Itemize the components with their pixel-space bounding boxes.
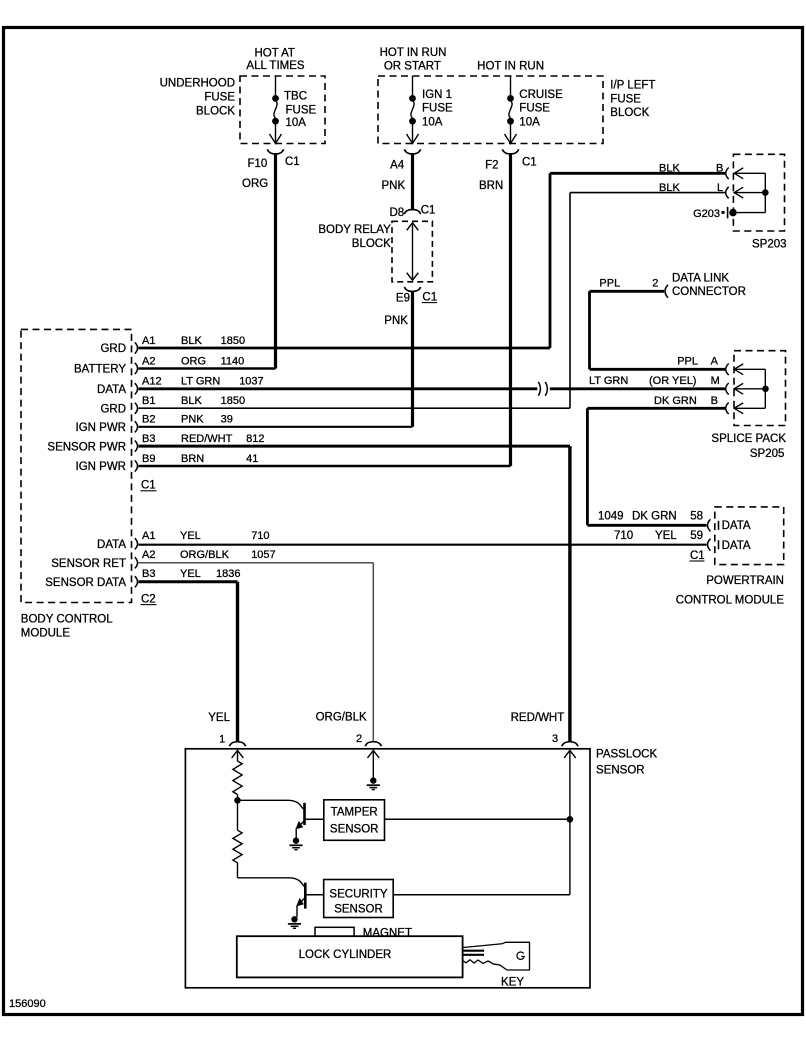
svg-text:58: 58 bbox=[690, 511, 703, 523]
svg-text:A2: A2 bbox=[142, 355, 155, 367]
svg-text:A1: A1 bbox=[142, 530, 155, 542]
svg-text:C1: C1 bbox=[285, 156, 300, 168]
svg-text:BLOCK: BLOCK bbox=[352, 238, 391, 250]
svg-text:SENSOR: SENSOR bbox=[330, 823, 379, 835]
svg-text:POWERTRAIN: POWERTRAIN bbox=[706, 575, 784, 587]
svg-text:10A: 10A bbox=[422, 116, 443, 128]
svg-text:BRN: BRN bbox=[479, 180, 503, 192]
svg-text:L: L bbox=[717, 182, 723, 194]
svg-text:PNK: PNK bbox=[382, 180, 406, 192]
svg-text:2: 2 bbox=[652, 278, 658, 290]
svg-text:SP205: SP205 bbox=[750, 448, 785, 460]
svg-text:I/P LEFT: I/P LEFT bbox=[610, 79, 655, 91]
svg-text:10A: 10A bbox=[519, 116, 540, 128]
svg-text:3: 3 bbox=[552, 733, 558, 745]
svg-text:RED/WHT: RED/WHT bbox=[181, 433, 233, 445]
svg-text:B1: B1 bbox=[142, 395, 155, 407]
svg-text:FUSE: FUSE bbox=[519, 103, 550, 115]
svg-text:A1: A1 bbox=[142, 335, 155, 347]
svg-text:GRD: GRD bbox=[100, 343, 126, 355]
svg-text:ORG/BLK: ORG/BLK bbox=[316, 712, 367, 724]
svg-text:C1: C1 bbox=[141, 480, 156, 492]
svg-text:B3: B3 bbox=[142, 568, 155, 580]
svg-text:IGN 1: IGN 1 bbox=[422, 89, 452, 101]
svg-text:LT GRN: LT GRN bbox=[589, 375, 628, 387]
svg-text:1: 1 bbox=[219, 733, 225, 745]
svg-text:B9: B9 bbox=[142, 453, 155, 465]
svg-text:RED/WHT: RED/WHT bbox=[511, 712, 565, 724]
svg-text:39: 39 bbox=[221, 414, 233, 426]
svg-text:TAMPER: TAMPER bbox=[331, 807, 378, 819]
svg-text:BLK: BLK bbox=[181, 395, 202, 407]
svg-text:BLOCK: BLOCK bbox=[196, 105, 235, 117]
svg-text:PPL: PPL bbox=[599, 278, 620, 290]
svg-text:C1: C1 bbox=[422, 292, 437, 304]
svg-text:1850: 1850 bbox=[221, 335, 245, 347]
svg-text:M: M bbox=[711, 375, 720, 387]
svg-text:ORG: ORG bbox=[181, 355, 206, 367]
svg-text:OR START: OR START bbox=[384, 60, 441, 72]
svg-text:ORG/BLK: ORG/BLK bbox=[180, 549, 230, 561]
svg-text:HOT AT: HOT AT bbox=[254, 48, 294, 60]
svg-text:ALL TIMES: ALL TIMES bbox=[246, 60, 304, 72]
svg-text:(OR YEL): (OR YEL) bbox=[649, 375, 696, 387]
svg-text:C1: C1 bbox=[690, 550, 705, 562]
svg-text:G203: G203 bbox=[693, 208, 720, 220]
svg-text:SENSOR: SENSOR bbox=[596, 765, 645, 777]
svg-text:BLK: BLK bbox=[181, 335, 202, 347]
svg-text:C1: C1 bbox=[522, 157, 537, 169]
svg-text:A12: A12 bbox=[142, 376, 162, 388]
svg-text:SENSOR: SENSOR bbox=[334, 903, 383, 915]
svg-text:E9: E9 bbox=[396, 293, 410, 305]
svg-text:YEL: YEL bbox=[180, 568, 201, 580]
svg-text:KEY: KEY bbox=[501, 977, 524, 989]
svg-text:YEL: YEL bbox=[208, 712, 230, 724]
svg-text:TBC: TBC bbox=[284, 90, 307, 102]
svg-text:B2: B2 bbox=[142, 414, 155, 426]
svg-text:DK GRN: DK GRN bbox=[632, 511, 677, 523]
svg-text:FUSE: FUSE bbox=[610, 94, 641, 106]
svg-text:YEL: YEL bbox=[180, 530, 201, 542]
svg-text:BODY RELAY: BODY RELAY bbox=[318, 224, 391, 236]
svg-text:B: B bbox=[716, 162, 723, 174]
svg-text:DATA: DATA bbox=[97, 384, 126, 396]
svg-text:PNK: PNK bbox=[181, 414, 204, 426]
svg-text:SENSOR DATA: SENSOR DATA bbox=[45, 577, 126, 589]
svg-text:UNDERHOOD: UNDERHOOD bbox=[160, 77, 235, 89]
svg-text:DK GRN: DK GRN bbox=[654, 395, 697, 407]
svg-text:1037: 1037 bbox=[239, 376, 263, 388]
svg-text:SP203: SP203 bbox=[752, 238, 787, 250]
svg-text:BLOCK: BLOCK bbox=[610, 107, 649, 119]
svg-text:LT GRN: LT GRN bbox=[181, 376, 220, 388]
svg-text:PNK: PNK bbox=[384, 315, 408, 327]
svg-text:C2: C2 bbox=[141, 593, 156, 605]
svg-text:FUSE: FUSE bbox=[204, 91, 235, 103]
svg-text:PASSLOCK: PASSLOCK bbox=[596, 749, 657, 761]
svg-text:LOCK CYLINDER: LOCK CYLINDER bbox=[299, 949, 392, 961]
svg-text:10A: 10A bbox=[286, 117, 307, 129]
svg-text:BRN: BRN bbox=[181, 453, 204, 465]
svg-text:SPLICE PACK: SPLICE PACK bbox=[711, 433, 786, 445]
svg-text:DATA LINK: DATA LINK bbox=[672, 272, 729, 284]
svg-text:710: 710 bbox=[614, 530, 633, 542]
svg-text:D8: D8 bbox=[389, 207, 404, 219]
svg-text:PPL: PPL bbox=[677, 355, 698, 367]
svg-text:1850: 1850 bbox=[221, 395, 245, 407]
svg-text:BLK: BLK bbox=[659, 162, 680, 174]
svg-text:CONTROL MODULE: CONTROL MODULE bbox=[676, 594, 785, 606]
svg-text:MODULE: MODULE bbox=[21, 628, 71, 640]
svg-text:812: 812 bbox=[246, 433, 264, 445]
svg-text:FUSE: FUSE bbox=[286, 105, 317, 117]
svg-text:A4: A4 bbox=[390, 160, 405, 172]
svg-text:DATA: DATA bbox=[97, 539, 126, 551]
svg-text:BLK: BLK bbox=[659, 182, 680, 194]
svg-text:1049: 1049 bbox=[598, 511, 624, 523]
svg-text:HOT IN RUN: HOT IN RUN bbox=[380, 47, 447, 59]
svg-text:F2: F2 bbox=[485, 160, 498, 172]
svg-text:GRD: GRD bbox=[100, 403, 126, 415]
svg-text:59: 59 bbox=[690, 530, 703, 542]
svg-text:F10: F10 bbox=[247, 158, 267, 170]
svg-text:MAGNET: MAGNET bbox=[363, 927, 412, 939]
svg-text:A: A bbox=[711, 355, 719, 367]
svg-text:B3: B3 bbox=[142, 433, 155, 445]
svg-text:SECURITY: SECURITY bbox=[329, 889, 387, 901]
svg-text:156090: 156090 bbox=[9, 998, 46, 1010]
svg-text:SENSOR RET: SENSOR RET bbox=[51, 558, 126, 570]
svg-text:1140: 1140 bbox=[221, 355, 245, 367]
svg-text:BATTERY: BATTERY bbox=[74, 364, 126, 376]
svg-text:CRUISE: CRUISE bbox=[519, 89, 563, 101]
svg-text:CONNECTOR: CONNECTOR bbox=[672, 286, 746, 298]
svg-text:2: 2 bbox=[356, 733, 362, 745]
svg-text:YEL: YEL bbox=[655, 530, 677, 542]
svg-text:BODY CONTROL: BODY CONTROL bbox=[21, 613, 113, 625]
svg-text:SENSOR PWR: SENSOR PWR bbox=[47, 441, 126, 453]
svg-text:ORG: ORG bbox=[242, 178, 268, 190]
svg-text:A2: A2 bbox=[142, 549, 155, 561]
svg-text:1836: 1836 bbox=[216, 568, 240, 580]
svg-text:DATA: DATA bbox=[722, 540, 751, 552]
svg-text:DATA: DATA bbox=[722, 520, 751, 532]
svg-text:1057: 1057 bbox=[251, 549, 275, 561]
svg-text:IGN PWR: IGN PWR bbox=[76, 461, 126, 473]
svg-text:710: 710 bbox=[251, 530, 269, 542]
svg-text:IGN PWR: IGN PWR bbox=[76, 422, 126, 434]
svg-text:B: B bbox=[711, 395, 718, 407]
svg-text:HOT IN RUN: HOT IN RUN bbox=[477, 60, 544, 72]
svg-text:C1: C1 bbox=[421, 205, 436, 217]
svg-text:41: 41 bbox=[246, 453, 258, 465]
svg-text:FUSE: FUSE bbox=[422, 103, 453, 115]
